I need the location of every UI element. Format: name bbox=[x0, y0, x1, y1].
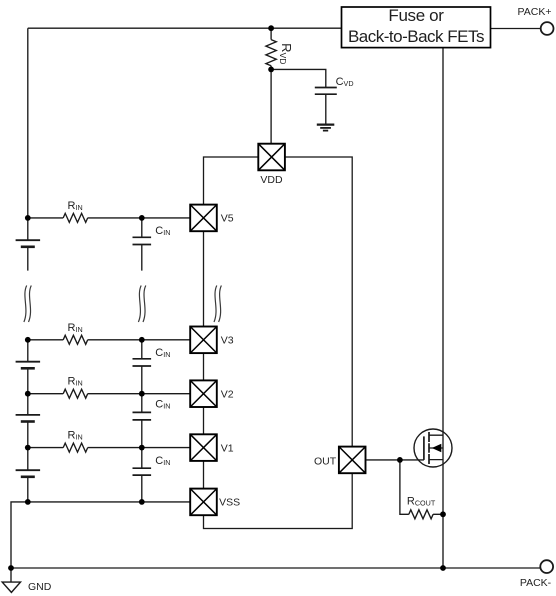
svg-text:RVD: RVD bbox=[279, 43, 295, 64]
svg-text:CIN: CIN bbox=[155, 455, 170, 467]
svg-text:RIN: RIN bbox=[68, 200, 83, 212]
svg-text:Fuse or: Fuse or bbox=[388, 6, 444, 25]
svg-text:VDD: VDD bbox=[260, 174, 283, 186]
svg-text:OUT: OUT bbox=[314, 455, 337, 467]
svg-text:V2: V2 bbox=[221, 388, 234, 400]
svg-text:V1: V1 bbox=[221, 442, 234, 454]
svg-text:PACK+: PACK+ bbox=[518, 6, 552, 18]
svg-text:GND: GND bbox=[28, 581, 52, 593]
svg-text:RIN: RIN bbox=[68, 430, 83, 442]
svg-text:V3: V3 bbox=[221, 335, 234, 347]
svg-text:CVD: CVD bbox=[336, 76, 354, 88]
svg-text:RCOUT: RCOUT bbox=[407, 496, 436, 508]
svg-text:CIN: CIN bbox=[155, 225, 170, 237]
svg-text:PACK-: PACK- bbox=[520, 577, 552, 589]
svg-text:RIN: RIN bbox=[68, 322, 83, 334]
svg-text:Back-to-Back FETs: Back-to-Back FETs bbox=[348, 27, 484, 46]
svg-text:CIN: CIN bbox=[155, 347, 170, 359]
svg-text:V5: V5 bbox=[221, 213, 234, 225]
svg-text:RIN: RIN bbox=[68, 376, 83, 388]
svg-text:VSS: VSS bbox=[219, 497, 240, 509]
svg-text:CIN: CIN bbox=[155, 399, 170, 411]
